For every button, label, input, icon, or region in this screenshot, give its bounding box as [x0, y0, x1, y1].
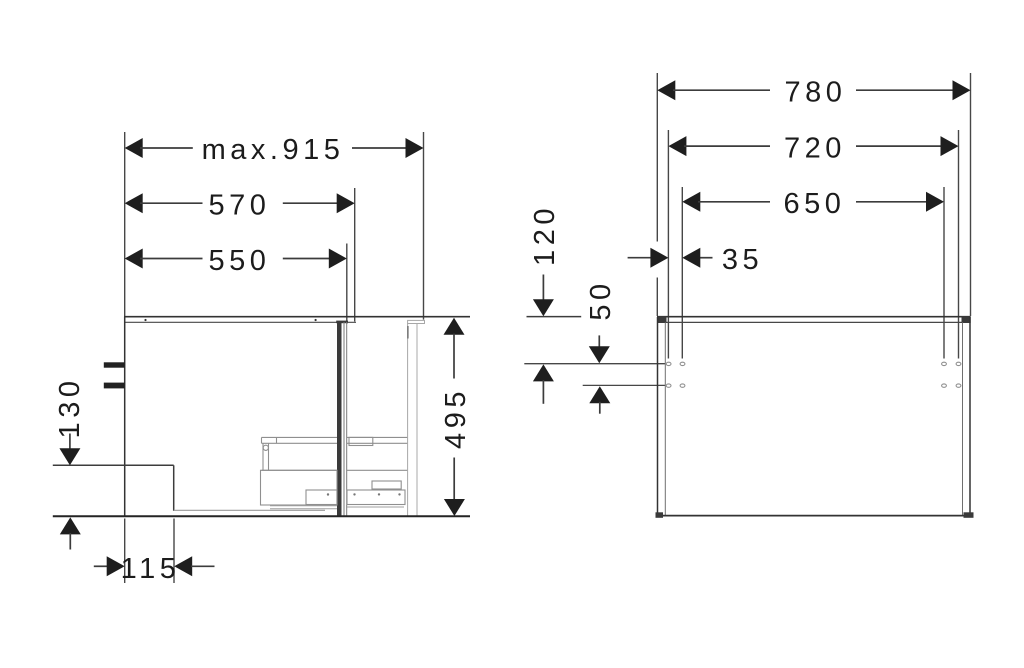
svg-text:max.915: max.915: [202, 134, 345, 166]
wall bracket upper: [104, 362, 125, 367]
dimension 120 (rotated): [527, 204, 582, 404]
cabinet back edge: [124, 317, 126, 517]
dimension 720: [668, 132, 958, 164]
dimension 115 extension lines: [125, 519, 174, 584]
dimension 780: [657, 77, 970, 109]
svg-text:115: 115: [121, 553, 181, 585]
mounting holes right pair row1: [942, 362, 961, 365]
open drawer front panel: [408, 320, 425, 516]
drawer slide top rail left: [262, 437, 338, 443]
floor line: [53, 515, 470, 517]
extension line back edge (left): [124, 132, 126, 316]
cabinet bottom: [656, 512, 974, 518]
svg-text:550: 550: [209, 245, 271, 277]
extension line 780 left: [656, 73, 658, 316]
mounting holes left pair row1: [666, 362, 685, 365]
drawer body left: [261, 470, 338, 509]
siphon notch vertical: [173, 465, 175, 511]
svg-text:130: 130: [54, 377, 86, 439]
dimension 650: [682, 188, 944, 220]
extension line 550: [346, 244, 348, 324]
drawer shelf line left: [262, 469, 338, 471]
siphon notch horizontal: [53, 464, 174, 466]
extension line 650 left: [681, 187, 683, 359]
extension line 780 right: [970, 73, 972, 316]
cabinet right wall: [963, 317, 971, 516]
dimension 35: [628, 242, 764, 278]
svg-text:570: 570: [209, 190, 271, 222]
door front panel (dark stripe): [336, 321, 348, 517]
dimension 570: [125, 190, 355, 222]
carcass front edge double line: [344, 322, 347, 516]
mounting holes left pair row2: [666, 384, 685, 387]
cabinet top slab: [657, 316, 971, 323]
dimension 115: [94, 553, 215, 585]
hole row leader line B: [583, 384, 666, 386]
extension line 720 left: [667, 130, 669, 359]
svg-text:780: 780: [785, 77, 847, 109]
mounting holes right pair row2: [942, 384, 961, 387]
left bracket with roller: [263, 443, 269, 470]
dimension 50 (rotated): [585, 279, 617, 413]
svg-text:120: 120: [529, 204, 561, 266]
dimension 130 (rotated): [54, 377, 86, 550]
extension line 650 right: [943, 187, 945, 359]
dimension 495 (rotated): [440, 318, 472, 516]
extension line 570: [354, 188, 356, 322]
cabinet top surface line: [124, 316, 470, 318]
svg-text:495: 495: [440, 387, 472, 449]
dimension 550: [125, 245, 347, 277]
svg-text:50: 50: [585, 279, 617, 320]
drawer shelf line right: [347, 469, 408, 471]
drawer slide top rail right: [347, 437, 408, 445]
extension line max.915 right: [423, 132, 425, 320]
svg-text:650: 650: [784, 188, 846, 220]
dimension max.915: [125, 134, 424, 166]
svg-text:720: 720: [784, 132, 846, 164]
wall bracket lower: [104, 383, 125, 389]
cabinet left wall: [658, 317, 666, 516]
recessed bottom line: [174, 509, 325, 511]
extension line 720 right: [958, 130, 960, 359]
drawer body right: [347, 481, 405, 507]
hole row leader line A: [524, 363, 665, 365]
svg-text:35: 35: [722, 244, 763, 276]
tabletop slab bottom line: [124, 319, 356, 322]
